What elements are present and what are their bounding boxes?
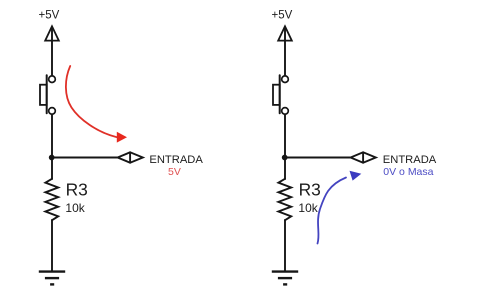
svg-text:ENTRADA: ENTRADA	[149, 154, 203, 166]
ground (right)	[272, 272, 298, 285]
wire: node to input port (left)	[52, 157, 118, 159]
svg-text:10k: 10k	[298, 201, 318, 215]
connector port ENTRADA (right)	[351, 152, 376, 162]
annotation arrow red (left)	[66, 66, 127, 143]
annotation arrow blue (right)	[318, 171, 362, 244]
pushbutton S2 actuator bar (right)	[279, 75, 281, 113]
wire: resistor to ground (left)	[51, 220, 53, 271]
resistor R3 (right)	[278, 179, 291, 220]
svg-text:5V: 5V	[168, 166, 181, 178]
pushbutton S1 actuator bar (left)	[46, 75, 48, 113]
power symbol +5V (left)	[45, 26, 59, 40]
resistor R3 (left)	[45, 179, 58, 220]
node junction (right)	[282, 155, 288, 161]
node junction (left)	[49, 155, 55, 161]
svg-text:R3: R3	[66, 180, 88, 200]
pushbutton S2 cap (right)	[273, 85, 280, 105]
pushbutton S2 terminal bottom (right)	[282, 108, 289, 115]
wire: node to resistor (left)	[51, 158, 53, 180]
connector port ENTRADA (left)	[118, 152, 143, 162]
pushbutton S1 terminal bottom (left)	[49, 108, 56, 115]
ground (left)	[39, 272, 65, 285]
pushbutton S2 terminal top (right)	[282, 76, 289, 83]
svg-text:+5V: +5V	[272, 10, 293, 22]
svg-text:R3: R3	[299, 180, 321, 200]
pushbutton S1 cap (left)	[40, 85, 47, 105]
wire: node to resistor (right)	[284, 158, 286, 180]
wire: node to input port (right)	[285, 157, 351, 159]
wire: switch to node (left)	[51, 114, 53, 157]
pushbutton S1 terminal top (left)	[49, 76, 56, 83]
wire: +5V arrow to switch (left)	[51, 28, 53, 76]
power symbol +5V (right)	[278, 26, 292, 40]
svg-text:10k: 10k	[65, 201, 85, 215]
svg-text:ENTRADA: ENTRADA	[383, 154, 437, 166]
svg-text:+5V: +5V	[39, 10, 60, 22]
wire: switch to node (right)	[284, 114, 286, 157]
wire: +5V arrow to switch (right)	[284, 28, 286, 76]
wire: resistor to ground (right)	[284, 220, 286, 271]
svg-text:0V o Masa: 0V o Masa	[383, 166, 433, 178]
